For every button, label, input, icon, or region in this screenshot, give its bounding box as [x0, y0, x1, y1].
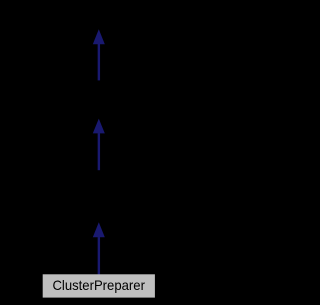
inheritance arrow 1 (top) — [93, 29, 105, 80]
inheritance arrow 3 (bottom) — [93, 222, 105, 274]
node ClusterPreparer (current class box) — [43, 274, 155, 297]
inheritance arrow 2 (middle) — [93, 119, 105, 171]
svg-text:ClusterPreparer: ClusterPreparer — [52, 278, 145, 293]
